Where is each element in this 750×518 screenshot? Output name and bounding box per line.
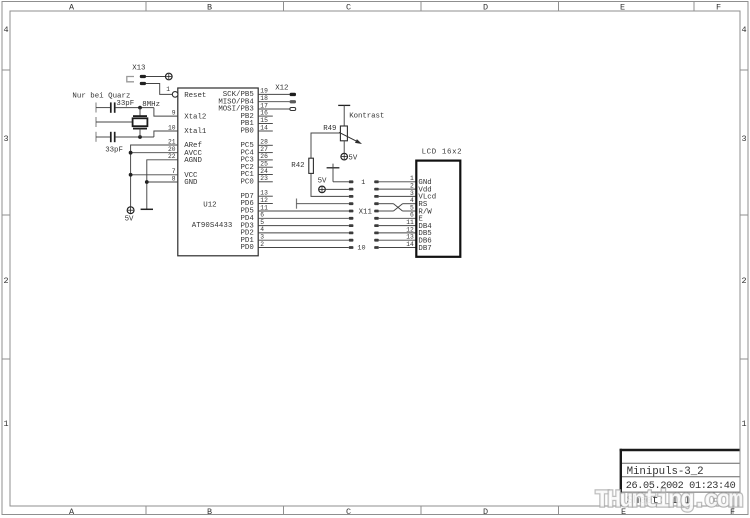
svg-text:Minipuls-3_2: Minipuls-3_2 <box>627 466 704 478</box>
wire X11-10 to LCD DB7 <box>379 247 417 249</box>
svg-text:3: 3 <box>4 134 9 144</box>
svg-text:4: 4 <box>260 226 264 233</box>
wire VDD to X11 pin1 <box>333 181 349 183</box>
node junction xtal top <box>138 106 142 110</box>
svg-text:28: 28 <box>260 139 268 146</box>
svg-text:6: 6 <box>410 212 414 219</box>
svg-text:21: 21 <box>168 138 176 145</box>
Reset inversion bubble <box>172 92 178 98</box>
capacitor C2 bottom plates <box>110 132 112 142</box>
svg-text:4: 4 <box>4 25 9 35</box>
ground symbol <box>141 208 153 210</box>
wire X13 pad2 to Reset pin <box>146 84 172 95</box>
svg-text:PD0: PD0 <box>240 244 253 252</box>
svg-text:3: 3 <box>260 234 264 241</box>
svg-text:PB0: PB0 <box>240 128 253 136</box>
svg-text:DB7: DB7 <box>418 245 431 253</box>
svg-text:5V: 5V <box>318 178 327 186</box>
svg-text:B: B <box>207 3 212 13</box>
LCD module box <box>416 161 460 257</box>
connector X12 pad 3 <box>290 108 296 111</box>
svg-text:15: 15 <box>260 117 268 124</box>
supply 5V circle at X11 pin2 <box>319 186 326 193</box>
wire X11-1 to LCD GNd <box>379 181 417 183</box>
connector X11 left pads <box>349 180 354 249</box>
svg-text:A: A <box>69 3 75 13</box>
svg-text:11: 11 <box>260 204 268 211</box>
crossover X RS/RW <box>394 204 403 211</box>
wire PD1 pin3 to X11 pin9 <box>258 239 349 241</box>
wire R49 wiper to R42 <box>311 133 340 158</box>
wire to VCC pin7 <box>131 174 178 176</box>
svg-text:AGND: AGND <box>184 157 202 165</box>
node junction AVCC <box>129 151 133 155</box>
wire X11-2 to LCD Vdd <box>379 188 417 190</box>
connector X13 pad 1 <box>140 75 146 78</box>
wire end marker row2 <box>95 117 97 127</box>
svg-text:5V: 5V <box>125 215 134 223</box>
svg-text:2: 2 <box>260 241 264 248</box>
title block thick left border <box>620 449 622 506</box>
svg-text:12: 12 <box>260 197 268 204</box>
wire to X11 pin4 <box>297 203 349 205</box>
potentiometer R49 body <box>340 126 347 141</box>
wire X11-4 toward crossover <box>379 203 394 205</box>
svg-text:2: 2 <box>410 183 414 190</box>
wire X13 pad1 to supply circle <box>146 76 166 78</box>
svg-text:7: 7 <box>172 168 176 175</box>
svg-text:C: C <box>346 3 351 13</box>
frame row numbers right <box>742 25 747 429</box>
U12 right pin name labels <box>218 91 254 252</box>
wire end marker row1 <box>95 103 97 113</box>
svg-text:2: 2 <box>4 276 9 286</box>
crystal Q1 8MHz <box>139 108 141 116</box>
potentiometer R49 wiper arrow <box>339 132 358 141</box>
svg-text:17: 17 <box>260 102 268 109</box>
wire R49 bottom to 5V <box>343 141 345 154</box>
op-amp placeholder removed <box>166 86 273 256</box>
capacitor C1 top plates <box>110 102 112 112</box>
U12 left pin name labels <box>184 92 207 187</box>
svg-text:PC0: PC0 <box>240 179 253 187</box>
title block vertical divider <box>713 492 715 506</box>
wire X11-3 to LCD VLcd <box>379 195 417 197</box>
wire jog to pin 9 <box>154 108 178 117</box>
node junction xtal bottom <box>138 135 142 139</box>
wire row1 left to cap <box>96 107 110 109</box>
svg-text:D: D <box>483 3 488 13</box>
svg-text:X11: X11 <box>359 208 373 216</box>
svg-text:R42: R42 <box>291 162 304 170</box>
LCD pin numbers <box>406 175 414 248</box>
svg-text:1: 1 <box>742 419 747 429</box>
wire PD2 pin4 to X11 pin8 <box>258 232 349 234</box>
svg-text:6: 6 <box>260 212 264 219</box>
wire PD3 pin5 to X11 pin7 <box>258 225 349 227</box>
title block row separator 2 <box>622 476 740 478</box>
wire R42 to X11 pin3 <box>311 173 349 196</box>
wire X11-5 toward crossover <box>379 210 394 212</box>
svg-text:1: 1 <box>4 419 9 429</box>
svg-text:1: 1 <box>361 179 365 187</box>
svg-text:14: 14 <box>260 124 268 131</box>
svg-text:11: 11 <box>406 219 414 226</box>
svg-text:10: 10 <box>357 245 365 253</box>
svg-text:13: 13 <box>406 234 414 241</box>
svg-text:19: 19 <box>260 88 268 95</box>
supply 5V circle under R49 <box>341 153 348 160</box>
svg-text:5: 5 <box>260 219 264 226</box>
connector X11 right pads <box>374 180 379 249</box>
wire X11-7 to LCD DB4 <box>379 225 417 227</box>
svg-text:3: 3 <box>742 134 747 144</box>
svg-text:14: 14 <box>406 241 414 248</box>
connector X13 pad 2 <box>140 82 146 85</box>
svg-text:Xtal1: Xtal1 <box>184 128 207 136</box>
svg-text:4: 4 <box>742 25 747 35</box>
wire GND pin8 <box>147 181 178 183</box>
svg-text:B: B <box>207 507 212 517</box>
svg-text:33pF: 33pF <box>116 100 134 108</box>
wire pin17 MOSI to X12-3 <box>258 108 290 110</box>
wire 5V rail to ARef pin21 <box>131 145 178 207</box>
title block row separator 3 <box>622 491 740 493</box>
svg-text:D: D <box>483 507 488 517</box>
wire PD4 pin6 to X11 pin6 <box>258 217 349 219</box>
svg-text:AT90S4433: AT90S4433 <box>192 222 233 230</box>
svg-text:9: 9 <box>172 109 176 116</box>
wire X11-6 to LCD E <box>379 217 417 219</box>
svg-text:Xtal2: Xtal2 <box>184 113 206 121</box>
wire PD0 pin2 to X11 pin10 <box>258 247 349 249</box>
wire cap1 to xtal top node <box>115 107 154 109</box>
wire cap2 to xtal bottom node <box>115 136 154 138</box>
connector X12 pad 2 <box>290 100 296 103</box>
connector X12 pad 1 <box>290 93 296 96</box>
svg-text:3: 3 <box>410 190 414 197</box>
svg-text:1: 1 <box>166 86 170 93</box>
U12 left pin numbers <box>166 86 176 182</box>
svg-text:24: 24 <box>260 168 268 175</box>
wire pin18 MISO to X12-2 <box>258 101 290 103</box>
title block row separator 1 <box>622 462 740 464</box>
LCD pin name labels <box>418 179 436 253</box>
svg-text:33pF: 33pF <box>105 147 123 155</box>
svg-text:Reset: Reset <box>184 92 206 100</box>
wire AGND pin22 <box>147 160 178 210</box>
frame row numbers left <box>4 25 9 429</box>
svg-text:F: F <box>716 3 721 13</box>
wire to AVCC pin20 <box>131 152 178 154</box>
svg-text:X13: X13 <box>132 64 145 72</box>
svg-text:1: 1 <box>410 175 414 182</box>
wire jog to pin 10 <box>154 131 178 137</box>
wire end marker row3 <box>95 132 97 142</box>
svg-text:23: 23 <box>260 175 268 182</box>
wire pin19 SCK to X12-1 <box>258 93 290 95</box>
supply VDD T-symbol above R49 <box>338 104 350 106</box>
svg-text:12: 12 <box>406 226 414 233</box>
frame column letters bottom <box>69 507 735 517</box>
node junction GND <box>145 180 149 184</box>
node junction VCC <box>129 173 133 177</box>
svg-text:13: 13 <box>260 190 268 197</box>
wire crossover to LCD R/W <box>403 210 417 212</box>
resistor R42 body <box>309 158 314 173</box>
title block thick top border <box>620 449 740 451</box>
svg-text:10: 10 <box>168 124 176 131</box>
svg-text:25: 25 <box>260 161 268 168</box>
wire X11-8 to LCD DB5 <box>379 232 417 234</box>
U12 right unconnected pin stubs (16,15,14,28,27,26,25,24,23,13,12) <box>258 116 273 203</box>
svg-text:20: 20 <box>168 146 176 153</box>
supply VDD T-symbol at X11 pin1 <box>327 167 340 169</box>
supply 5V circle left <box>127 207 134 214</box>
IC U12 AT90S4433 body <box>178 88 258 256</box>
wire row3 left to cap <box>96 136 110 138</box>
svg-text:18: 18 <box>260 95 268 102</box>
svg-text:E: E <box>620 3 625 13</box>
wire end marker X11 pin4 <box>296 199 298 209</box>
svg-text:C: C <box>346 507 351 517</box>
svg-text:X12: X12 <box>275 84 288 92</box>
svg-text:LCD 16x2: LCD 16x2 <box>422 148 462 156</box>
svg-text:22: 22 <box>168 153 176 160</box>
svg-text:Kontrast: Kontrast <box>349 113 384 121</box>
svg-text:U12: U12 <box>203 202 216 210</box>
svg-text:5: 5 <box>410 204 414 211</box>
wire PD5 pin11 to X11 pin5 <box>258 210 349 212</box>
frame column letters top <box>69 3 721 13</box>
svg-text:8: 8 <box>172 175 176 182</box>
connector X13 bracket <box>127 77 134 82</box>
wire X11-9 to LCD DB6 <box>379 239 417 241</box>
svg-text:GND: GND <box>184 179 198 187</box>
wire row2 to crystal case <box>96 121 133 123</box>
svg-text:4: 4 <box>410 197 414 204</box>
supply circle near X13 <box>166 73 173 80</box>
svg-text:27: 27 <box>260 146 268 153</box>
svg-text:5V: 5V <box>348 155 357 163</box>
svg-text:16: 16 <box>260 109 268 116</box>
svg-text:26: 26 <box>260 153 268 160</box>
U12 right pin numbers <box>260 88 268 248</box>
svg-text:R49: R49 <box>323 125 336 133</box>
svg-text:A: A <box>69 507 75 517</box>
svg-text:2: 2 <box>742 276 747 286</box>
wire crossover to LCD RS <box>403 203 417 205</box>
wire 5V to X11 pin2 <box>325 188 349 190</box>
svg-text:THunting.com: THunting.com <box>595 488 743 515</box>
